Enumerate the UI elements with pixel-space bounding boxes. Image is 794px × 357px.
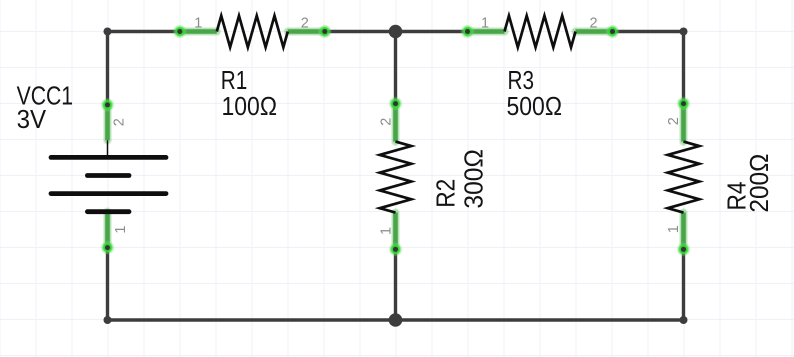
battery VCC1 plate 2 (short) bbox=[87, 173, 129, 178]
resistor R4 zigzag body bbox=[668, 142, 700, 213]
wire middle vertical upper: junction to R2 pin2 bbox=[394, 32, 397, 104]
R3 pin1 connection glow dot bbox=[460, 24, 474, 38]
battery VCC1 plate 1 (long) bbox=[51, 155, 166, 160]
wire left vertical lower: battery pin1 to bottom-left corner bbox=[106, 248, 109, 320]
resistor R1 zigzag body bbox=[217, 16, 288, 48]
svg-text:300Ω: 300Ω bbox=[458, 149, 488, 209]
svg-text:1: 1 bbox=[666, 225, 682, 233]
R2 pin1 connection glow dot bbox=[388, 242, 402, 256]
svg-text:2: 2 bbox=[301, 15, 309, 31]
svg-text:500Ω: 500Ω bbox=[507, 91, 563, 121]
R1 pin2 connection glow dot bbox=[318, 24, 332, 38]
svg-text:200Ω: 200Ω bbox=[744, 154, 774, 213]
svg-text:1: 1 bbox=[481, 15, 489, 31]
resistor R1 pin2 green highlight bbox=[288, 27, 325, 36]
resistor R4 pin2 green highlight (top) bbox=[679, 104, 688, 142]
resistor R2 pin1 green highlight (bottom) bbox=[391, 213, 400, 250]
battery VCC1 plate 3 (long) bbox=[51, 191, 166, 196]
svg-text:2: 2 bbox=[589, 15, 597, 31]
resistor R3 zigzag body bbox=[505, 16, 576, 48]
node top-left corner bbox=[104, 28, 112, 36]
battery pin2 connection glow dot bbox=[100, 98, 114, 112]
svg-text:2: 2 bbox=[112, 118, 128, 126]
svg-text:1: 1 bbox=[113, 226, 129, 234]
R4 pin1 connection glow dot bbox=[676, 242, 690, 256]
svg-text:2: 2 bbox=[379, 118, 395, 126]
wire top-left horizontal: node corner to R1 pin1 bbox=[108, 30, 180, 33]
wire left vertical upper: corner to battery pin2 bbox=[106, 32, 109, 105]
resistor R2 zigzag body bbox=[380, 142, 412, 213]
svg-text:2: 2 bbox=[666, 117, 682, 125]
svg-text:3V: 3V bbox=[17, 104, 47, 134]
wire top right: R3 pin2 to top-right corner bbox=[613, 30, 684, 33]
svg-text:1: 1 bbox=[379, 227, 395, 235]
junction bottom middle bbox=[389, 313, 403, 327]
svg-text:1: 1 bbox=[194, 15, 202, 31]
resistor R3 pin2 green highlight bbox=[576, 27, 613, 36]
svg-text:100Ω: 100Ω bbox=[222, 91, 278, 121]
node top-right corner bbox=[680, 28, 688, 36]
resistor R1 pin1 green highlight bbox=[180, 27, 217, 36]
node bottom-right corner bbox=[680, 316, 688, 324]
wire right vertical lower: R4 pin1 to bottom-right corner bbox=[682, 249, 685, 320]
wire middle vertical lower: R2 pin1 to bottom junction bbox=[394, 249, 397, 320]
R4 pin2 connection glow dot bbox=[676, 96, 690, 110]
R3 pin2 connection glow dot bbox=[605, 24, 619, 38]
battery VCC1 pin2 green highlight (top) bbox=[103, 105, 112, 140]
battery VCC1 pin1 green highlight (bottom) bbox=[103, 212, 112, 248]
battery VCC1 internal lead bbox=[107, 140, 109, 157]
battery VCC1 plate 4 (short) bbox=[87, 209, 129, 214]
battery pin1 connection glow dot bbox=[100, 240, 114, 254]
R1 pin1 connection glow dot bbox=[173, 24, 187, 38]
resistor R4 pin1 green highlight (bottom) bbox=[679, 213, 688, 250]
resistor R3 pin1 green highlight bbox=[468, 27, 505, 36]
wire top middle: R1 pin2 to R3 pin1 through junction bbox=[325, 30, 468, 33]
svg-text:R2: R2 bbox=[431, 179, 461, 208]
junction top middle bbox=[389, 25, 403, 39]
R2 pin2 connection glow dot bbox=[388, 96, 402, 110]
node bottom-left corner bbox=[104, 316, 112, 324]
wire right vertical upper: corner to R4 pin2 bbox=[682, 32, 685, 104]
wire bottom horizontal bbox=[108, 318, 684, 321]
resistor R2 pin2 green highlight (top) bbox=[391, 104, 400, 142]
